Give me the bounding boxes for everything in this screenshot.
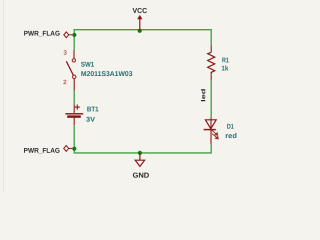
svg-text:red: red — [225, 133, 237, 140]
svg-text:PWR_FLAG: PWR_FLAG — [24, 31, 61, 38]
svg-text:PWR_FLAG: PWR_FLAG — [24, 148, 61, 155]
svg-text:3: 3 — [63, 50, 67, 57]
svg-text:VCC: VCC — [133, 6, 148, 15]
svg-text:3V: 3V — [86, 117, 95, 124]
svg-text:M2011S3A1W03: M2011S3A1W03 — [81, 71, 133, 78]
svg-text:R1: R1 — [222, 57, 229, 64]
svg-text:2: 2 — [63, 79, 67, 86]
svg-text:GND: GND — [132, 171, 149, 180]
svg-text:SW1: SW1 — [81, 62, 94, 69]
svg-text:led: led — [201, 88, 207, 102]
svg-text:1k: 1k — [221, 66, 228, 73]
svg-text:BT1: BT1 — [87, 106, 99, 113]
svg-text:D1: D1 — [227, 124, 234, 131]
